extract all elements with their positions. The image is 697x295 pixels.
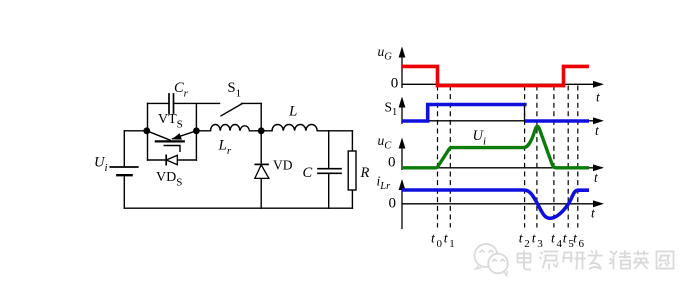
svg-text:VD: VD xyxy=(273,157,293,172)
svg-text:6: 6 xyxy=(579,238,585,250)
svg-text:C: C xyxy=(303,165,313,181)
svg-text:5: 5 xyxy=(568,238,574,250)
svg-text:3: 3 xyxy=(537,238,543,250)
svg-text:1: 1 xyxy=(449,238,455,250)
svg-text:0: 0 xyxy=(389,195,397,211)
svg-text:0: 0 xyxy=(391,75,399,91)
svg-text:L: L xyxy=(288,103,297,119)
svg-text:4: 4 xyxy=(557,238,563,250)
svg-text:0: 0 xyxy=(388,155,396,171)
svg-text:2: 2 xyxy=(524,238,530,250)
svg-text:R: R xyxy=(360,165,370,181)
svg-text:0: 0 xyxy=(437,238,443,250)
